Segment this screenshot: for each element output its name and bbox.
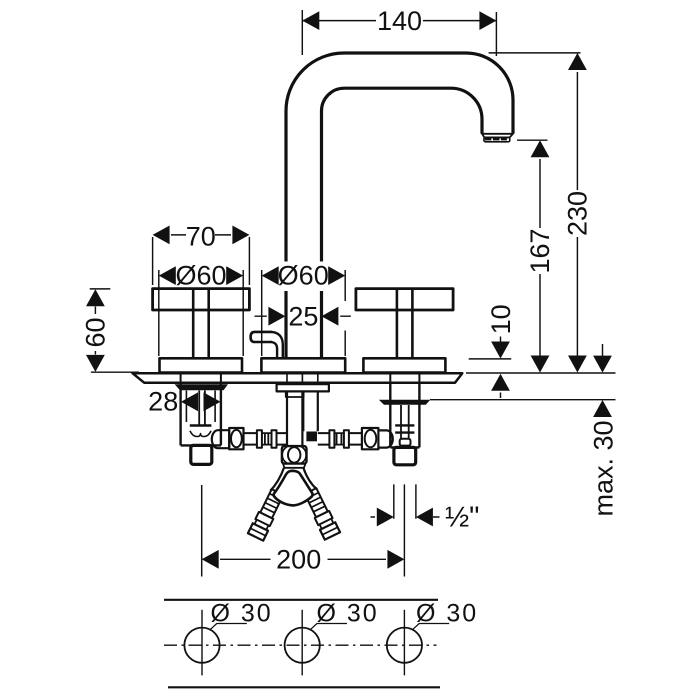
hole circle right xyxy=(387,628,422,663)
template bottom line xyxy=(168,686,440,688)
svg-text:½": ½" xyxy=(445,502,479,534)
left crimp fitting xyxy=(262,433,272,445)
left valve flange xyxy=(190,424,212,427)
svg-text:Ø 30: Ø 30 xyxy=(317,600,379,628)
svg-text:230: 230 xyxy=(563,191,593,236)
center shank crossing deck xyxy=(287,373,318,384)
dimension 60 arrows xyxy=(86,289,105,306)
left handle bar xyxy=(153,289,250,310)
dimension 70 extension lines xyxy=(153,237,250,285)
center tube collar xyxy=(286,391,304,397)
spout outer contour xyxy=(286,53,513,262)
svg-text:10: 10 xyxy=(486,304,516,334)
dimension 25 arrows xyxy=(268,307,285,326)
right handle stem xyxy=(397,289,413,359)
dimension 140 arrows xyxy=(302,11,319,30)
spout tip trapezoid xyxy=(482,134,513,138)
dimension 10 reference line xyxy=(469,358,512,360)
dimension 167 arrows xyxy=(531,140,550,157)
hole circle left axis xyxy=(201,610,203,676)
right valve outlet xyxy=(394,447,416,464)
right hose ball xyxy=(365,430,377,447)
dimension 230 line xyxy=(576,72,578,356)
svg-text:70: 70 xyxy=(186,221,216,251)
svg-text:200: 200 xyxy=(276,545,321,575)
right valve seal washer (black) xyxy=(379,400,430,405)
right handle escutcheon xyxy=(363,358,445,372)
right valve flanges xyxy=(395,425,414,432)
dimension 60 stubs xyxy=(94,307,96,355)
Y-connector ball xyxy=(288,447,300,463)
hose to center xyxy=(277,433,288,445)
hole circle center axis xyxy=(301,610,303,676)
svg-text:140: 140 xyxy=(377,6,422,36)
dimension 70 line xyxy=(171,234,231,236)
half inch pipe lines xyxy=(394,484,416,518)
spout inner contour xyxy=(322,88,483,261)
dimension 200 line xyxy=(220,558,386,560)
left valve threaded rod xyxy=(199,391,205,426)
D30 label center leader xyxy=(310,624,347,630)
spout leg inner lower segment xyxy=(320,291,323,358)
dimension 25 leaders xyxy=(255,315,351,317)
left hose ball xyxy=(231,430,242,447)
aerator dashes xyxy=(485,137,507,140)
dimension D60 center extension lines xyxy=(262,270,346,356)
dimension D60 center arrows xyxy=(262,266,279,285)
template top line xyxy=(164,599,438,601)
dimension 167 top reference line xyxy=(517,139,548,141)
Y-connector collar xyxy=(282,464,306,468)
svg-text:Ø60: Ø60 xyxy=(175,260,226,290)
left valve outlet xyxy=(191,445,212,464)
dimension 70 arrows xyxy=(153,226,170,245)
pop-up rod elbow stub xyxy=(251,332,272,342)
hose right of center xyxy=(318,433,330,445)
dimension D60 left extension lines xyxy=(159,270,243,356)
hole circle center xyxy=(285,628,320,663)
dimension 140 line xyxy=(302,20,496,22)
svg-text:28: 28 xyxy=(148,387,178,417)
right valve shank crossing deck xyxy=(390,373,419,383)
left valve loose washer xyxy=(190,431,211,437)
center under-deck flange xyxy=(277,384,329,391)
left valve seal washer (black) xyxy=(175,384,228,390)
center right tube xyxy=(303,391,318,431)
left valve body xyxy=(181,383,221,445)
right hose elbow fitting xyxy=(378,430,392,447)
svg-text:167: 167 xyxy=(525,228,555,273)
hose segment xyxy=(349,433,362,445)
dimension 230 top reference line xyxy=(489,52,581,54)
dimension 200 arrows xyxy=(202,550,219,569)
dimension max30 lower arrow xyxy=(593,400,612,417)
mounting deck xyxy=(133,373,463,383)
right valve body xyxy=(390,383,419,447)
center right tube nut (black) xyxy=(306,432,317,442)
svg-text:Ø60: Ø60 xyxy=(278,260,329,290)
half inch arrows xyxy=(377,508,394,527)
right hose tail xyxy=(303,487,340,539)
dimension 200 extension lines xyxy=(202,484,405,576)
left hose ball nut xyxy=(229,428,243,449)
right valve threaded rod xyxy=(401,405,409,439)
dimension 60 reference lines xyxy=(90,289,139,372)
left valve shank crossing deck xyxy=(181,373,221,383)
dimension 10 arrows xyxy=(491,342,510,359)
dimension D60 left arrows xyxy=(159,266,176,285)
svg-text:Ø 30: Ø 30 xyxy=(211,600,273,628)
svg-text:25: 25 xyxy=(288,301,318,331)
dimension 230 arrows xyxy=(568,53,587,70)
svg-text:Ø 30: Ø 30 xyxy=(416,600,478,628)
D30 label right leader xyxy=(412,624,449,630)
left valve inner lines xyxy=(186,391,215,423)
left hose tail xyxy=(248,488,285,540)
dimension 140 extension lines xyxy=(302,10,496,56)
right hose ball nut xyxy=(362,428,379,449)
pop-up rod elbow bend xyxy=(272,332,283,358)
right valve rod nut xyxy=(400,439,411,446)
dimension max30 upper stub and arrow xyxy=(602,344,604,357)
hose left segment xyxy=(244,433,258,445)
hole circle right axis xyxy=(403,610,405,676)
dimension 28 arrows xyxy=(181,392,198,411)
dimension 167 line xyxy=(539,159,541,356)
Y-connector nut xyxy=(282,446,307,464)
Y-connector shield body xyxy=(274,471,313,506)
left handle escutcheon xyxy=(160,358,243,372)
svg-text:60: 60 xyxy=(81,317,111,347)
dimension 10 stubs xyxy=(500,337,502,399)
washer reference line xyxy=(430,399,616,401)
template center axis dash-dot xyxy=(164,644,437,646)
spout leg outer lower segment xyxy=(284,291,287,358)
Y-connector outer walls xyxy=(270,468,317,491)
hole circle left xyxy=(184,628,219,663)
Y-connector nut side arcs xyxy=(282,447,306,464)
left handle stem xyxy=(193,289,209,359)
right crimp fitting xyxy=(334,433,344,445)
svg-text:max. 30: max. 30 xyxy=(589,420,619,516)
center left tube xyxy=(287,391,302,446)
left hose elbow fitting xyxy=(212,430,229,448)
right handle bar xyxy=(356,289,453,310)
aerator xyxy=(484,137,510,141)
spout escutcheon xyxy=(261,358,345,372)
D30 label left leader xyxy=(210,624,247,630)
half inch leaders xyxy=(371,516,440,518)
deck top extension line xyxy=(466,372,616,374)
